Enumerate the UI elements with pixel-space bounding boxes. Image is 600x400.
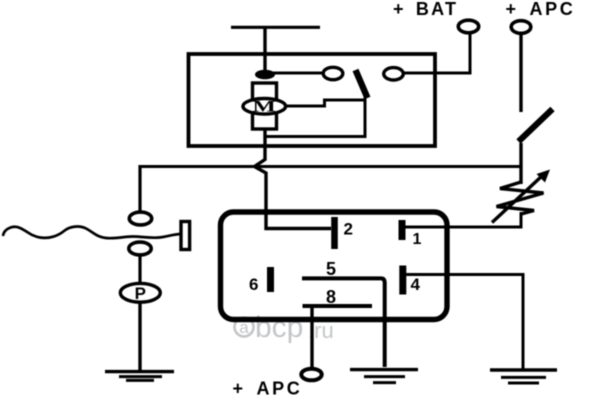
svg-text:P: P: [135, 284, 146, 303]
relay box: [221, 212, 448, 320]
wire lower ring to P: [138, 255, 141, 284]
pin 6 bar: [267, 267, 274, 292]
breaker contact right: [384, 68, 404, 80]
svg-text:+ APC: + APC: [233, 379, 303, 399]
motor/breaker assembly box: [189, 54, 436, 146]
wire rheostat to pin 1: [405, 212, 521, 227]
wire motor to relay pin 2 (with kink): [255, 129, 332, 229]
ring terminal upper: [129, 212, 151, 225]
wire pin 1 right: [405, 226, 448, 229]
breaker blade: [356, 70, 368, 98]
motor M brush block: [253, 83, 277, 129]
svg-text:M: M: [252, 97, 276, 115]
ring terminal lower: [129, 242, 151, 255]
svg-text:+ BAT: + BAT: [393, 0, 458, 19]
svg-text:bcp: bcp: [255, 311, 303, 344]
wire motor bottom branch to breaker pivot: [265, 96, 365, 137]
svg-text:8: 8: [326, 287, 336, 307]
connector plug bar: [181, 222, 190, 250]
+BAT terminal: [458, 20, 478, 33]
ground (middle): [350, 370, 418, 383]
pin 1 bar: [399, 220, 406, 240]
wire right contact to +BAT: [403, 33, 470, 73]
ground (right): [490, 370, 557, 383]
+APC bottom terminal: [301, 369, 321, 381]
wire pin 8 to +APC bottom: [310, 306, 313, 367]
wire bus bar to junction dot: [263, 27, 266, 76]
watermark abcp.ru: [235, 311, 334, 344]
svg-text:1: 1: [413, 231, 422, 248]
motor M body: [243, 99, 286, 115]
pin 5 wire: [302, 278, 385, 367]
pin 2 bar: [331, 217, 338, 249]
+APC terminal (top): [511, 21, 531, 34]
svg-text:5: 5: [326, 259, 336, 279]
breaker contact left: [323, 67, 343, 79]
pin 4 bar: [399, 266, 406, 295]
wire +APC to switch: [519, 33, 522, 112]
svg-text:6: 6: [249, 275, 258, 294]
wire pin 4 to ground right: [406, 275, 523, 371]
main horizontal wire: [140, 165, 521, 168]
rheostat arrow: [492, 175, 543, 223]
svg-text:4: 4: [411, 275, 421, 294]
svg-text:+ APC: + APC: [506, 0, 576, 19]
wire switch to rheostat: [519, 143, 522, 184]
wavy harness wire: [3, 227, 181, 239]
pin 8 wire: [303, 304, 373, 308]
wire junction dot to left contact: [265, 72, 323, 75]
wire motor right to breaker blade (stepped): [287, 100, 364, 106]
svg-text:2: 2: [344, 220, 353, 239]
rheostat zigzag: [497, 182, 544, 214]
junction dot: [255, 70, 275, 80]
switch blade (APC): [519, 109, 553, 142]
pump P body: [120, 283, 160, 302]
ground (left): [105, 372, 174, 381]
wire P to ground left: [138, 302, 141, 371]
top bus bar: [231, 26, 320, 29]
left rail down from main wire: [138, 165, 141, 212]
